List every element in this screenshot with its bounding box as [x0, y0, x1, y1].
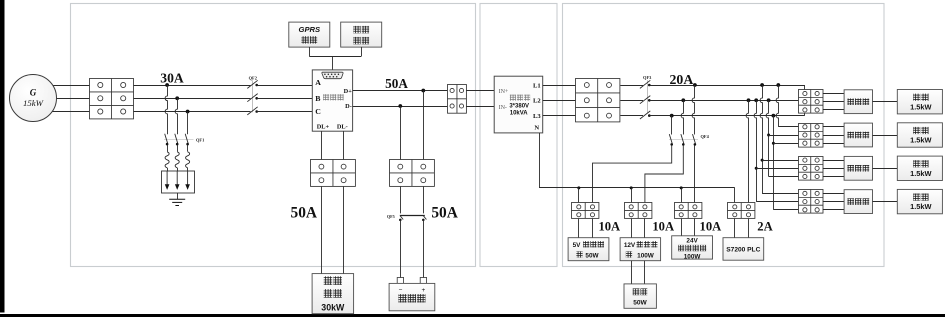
12V regulated supply box 100W: [620, 238, 661, 261]
ground symbol: [169, 199, 185, 205]
terminal block motor branch 3: [799, 157, 824, 181]
node junction phase B arrester tap: [175, 96, 179, 100]
breaker QF2 pole A: [247, 80, 258, 88]
svg-text:3*380V: 3*380V: [509, 103, 529, 109]
wire L3 bend into motor block 1: [804, 114, 806, 116]
node tap branch3 L1: [760, 83, 764, 87]
node branch3 L1 stub junction: [761, 159, 764, 162]
wire block to VFD 2 top: [823, 126, 844, 128]
node tap QF4 L3: [670, 114, 674, 118]
wire VFD to motor 2: [873, 135, 898, 137]
label maodeng: [633, 288, 648, 295]
node QF5 right: [422, 219, 425, 222]
svg-text:−: −: [399, 286, 403, 293]
node tap branch3 L2: [754, 98, 758, 102]
VFD box bianpinqi 2: [844, 123, 872, 147]
svg-text:DL-: DL-: [337, 124, 348, 131]
svg-text:12V: 12V: [624, 242, 636, 249]
wire branch4 lower stub: [773, 209, 798, 211]
svg-text:L2: L2: [533, 98, 541, 105]
wire IN- link: [466, 106, 494, 108]
svg-text:L3: L3: [533, 113, 541, 120]
breaker QF2 pole C: [247, 107, 258, 115]
svg-text:DL+: DL+: [317, 124, 330, 131]
node N tap 5V: [577, 186, 580, 189]
wire arrester drop B: [175, 98, 177, 134]
terminal block TB4 inverter input: [448, 85, 467, 114]
surge arrester coil: [175, 152, 179, 168]
svg-text:30A: 30A: [160, 71, 184, 86]
wire inverter L3 out: [543, 115, 576, 117]
surge arrester coil: [165, 152, 169, 168]
svg-text:10A: 10A: [700, 219, 722, 233]
wire arrester drop C: [187, 112, 189, 135]
svg-text:D-: D-: [345, 103, 352, 110]
svg-text:B: B: [315, 94, 320, 103]
breaker QF1 pole C: [185, 134, 189, 146]
svg-text:QF2: QF2: [249, 75, 257, 80]
svg-text:L1: L1: [533, 82, 541, 89]
svg-text:QF1: QF1: [196, 138, 204, 143]
wire QF1 to arrester coil: [187, 145, 189, 152]
wire arrester drop A: [165, 85, 167, 134]
wire QF4-3 to 24V supply phase: [694, 145, 696, 203]
wire QF2 to controller A: [257, 85, 313, 87]
svg-text:50W: 50W: [585, 252, 599, 259]
wire TB6 5V supply out right: [592, 219, 594, 238]
breaker QF4 pole 3: [693, 134, 697, 146]
svg-text:24V: 24V: [686, 238, 698, 245]
wire block to VFD 3 top: [823, 160, 844, 162]
battery terminal plus: [420, 278, 426, 284]
dump load resistor box 30kW: [312, 274, 354, 314]
label shuju: [353, 26, 369, 33]
terminal block TB6 5V supply: [572, 203, 599, 219]
wire branch3 L2 stub: [756, 168, 798, 170]
wire TB5 to QF3 L2: [620, 100, 643, 102]
breaker QF3 pole L1: [640, 80, 651, 88]
S7200 PLC box: [723, 238, 764, 261]
wire N tap 12V: [631, 188, 633, 203]
svg-text:D+: D+: [344, 88, 353, 95]
label bianpinqi 4: [847, 198, 869, 205]
breaker QF1 pole A: [165, 134, 169, 146]
node N tap 24V: [680, 186, 683, 189]
wire inverter L1 out: [543, 85, 576, 87]
wire L2 bus: [649, 100, 798, 102]
wire block to VFD 1 bottom: [823, 109, 844, 111]
wire TB6 5V supply out left: [578, 219, 580, 238]
svg-text:1.5kW: 1.5kW: [910, 102, 931, 111]
svg-text:S7200 PLC: S7200 PLC: [726, 247, 760, 254]
wire branch2 L2 stub: [769, 135, 799, 137]
wire TB8 24V supply out left: [681, 219, 683, 236]
node tap branch2 L3: [772, 114, 776, 118]
wire TB9 PLC out left: [734, 219, 736, 238]
svg-text:1.5kW: 1.5kW: [910, 136, 931, 145]
anchor light box 50W: [624, 284, 656, 308]
motor box 4 1.5kW: [897, 189, 942, 213]
svg-text:20A: 20A: [670, 72, 694, 87]
svg-text:GPRS: GPRS: [299, 25, 321, 34]
node junction phase A arrester tap: [165, 83, 169, 87]
breaker QF4 pole 1: [669, 134, 673, 146]
node tap branch2 L1: [776, 83, 780, 87]
svg-text:1.5kW: 1.5kW: [910, 169, 931, 178]
label bianpinqi 3: [847, 165, 869, 172]
svg-text:50A: 50A: [385, 76, 408, 91]
wire branch4 L1 stub: [762, 193, 798, 195]
motor box 3 1.5kW: [897, 156, 942, 180]
svg-text:G: G: [30, 88, 37, 98]
breaker QF3 linkage: [647, 80, 649, 113]
label wenyadianyuan: [678, 245, 706, 251]
wire block to VFD 4 bottom: [823, 209, 844, 211]
node QF5 left: [399, 219, 402, 222]
svg-text:100W: 100W: [684, 254, 702, 261]
wire battery tap negative: [400, 106, 402, 160]
wire coil to arrester box: [187, 168, 189, 171]
wire N bus horizontal: [539, 187, 735, 189]
breaker QF4 linkage: [669, 139, 698, 141]
wire QF4-1 to 5V supply phase: [593, 145, 672, 203]
terminal block TB8 24V supply: [675, 203, 702, 219]
breaker QF1 pole B: [175, 134, 179, 146]
frame: generator-controller section: [71, 4, 476, 267]
wire generator phase C: [33, 111, 90, 113]
label dianji 2: [913, 127, 928, 134]
inverter box 3*380V 10kVA: [494, 76, 543, 133]
svg-text:QF4: QF4: [701, 134, 710, 139]
svg-text:15kW: 15kW: [23, 98, 44, 108]
wire comm join horizontal: [309, 56, 361, 58]
wire block to VFD 2 bottom: [823, 143, 844, 145]
label tongxin: [301, 36, 317, 43]
label yuan 50W: [576, 251, 582, 257]
wire battery tap positive: [423, 91, 425, 160]
breaker QF3 pole L2: [640, 96, 651, 104]
wire PLC phase drop: [746, 100, 748, 203]
label kongzhiqi controller: [323, 94, 344, 100]
breaker QF4 pole 2: [681, 134, 685, 146]
frame: inverter section: [480, 4, 557, 267]
svg-text:1.5kW: 1.5kW: [910, 202, 931, 211]
node tap branch2 L2: [767, 98, 771, 102]
terminal block TB7 12V supply: [625, 203, 652, 219]
wire branch3 L1 stub: [762, 160, 798, 162]
wire bus A to QF2: [134, 85, 251, 87]
5V regulated supply box 50W: [568, 238, 609, 261]
wire block to VFD 1 mid: [823, 101, 844, 103]
wire QF2 to controller C: [257, 111, 313, 113]
node junction D- battery tap: [398, 104, 402, 108]
wire N bus turn down to PLC block: [734, 188, 736, 203]
wire VFD to motor 3: [873, 168, 898, 170]
svg-text:QF5: QF5: [387, 214, 395, 219]
wire branch2-4 L3 feeder: [773, 116, 775, 210]
data storage box: [341, 22, 382, 47]
arrester discharge arrow: [185, 171, 190, 190]
svg-text:A: A: [315, 78, 321, 87]
wire 12V to anchor light left: [631, 261, 633, 284]
wire N tap 5V: [578, 188, 580, 203]
GPRS communication box: [289, 22, 330, 47]
svg-text:50A: 50A: [431, 205, 458, 222]
wire D- to inverter terminal: [353, 106, 448, 108]
controller DB9 connector: [322, 72, 343, 79]
wire block to VFD 4 top: [823, 193, 844, 195]
frame: distribution section: [563, 4, 885, 267]
wire TB8 24V supply out right: [694, 219, 696, 236]
wire block to VFD 3 bottom: [823, 176, 844, 178]
wire VFD to motor 4: [873, 201, 898, 203]
wire QF2 to controller B: [257, 98, 313, 100]
terminal block motor branch 1: [799, 90, 824, 114]
wire DL- down: [343, 131, 345, 160]
svg-text:50W: 50W: [633, 300, 647, 307]
svg-text:10kVA: 10kVA: [510, 110, 529, 116]
wire branch3-4 L2 feeder: [754, 100, 756, 201]
svg-text:10A: 10A: [598, 219, 620, 233]
svg-text:C: C: [315, 107, 321, 116]
wire branch2 L1 stub: [778, 126, 798, 128]
wire battery QF5 upper right: [423, 187, 425, 214]
breaker QF2 pole B: [247, 94, 258, 102]
VFD box bianpinqi 1: [844, 90, 872, 114]
terminal block TB2 dump load: [311, 160, 356, 187]
svg-text:+: +: [422, 287, 426, 294]
label nibianqi inverter: [510, 95, 530, 101]
terminal block motor branch 2: [799, 124, 824, 148]
svg-text:IN-: IN-: [499, 105, 507, 111]
label cunchu: [353, 37, 369, 44]
VFD box bianpinqi 3: [844, 156, 872, 180]
wire VFD to motor 1: [873, 101, 898, 103]
breaker QF1 linkage: [164, 139, 194, 141]
svg-text:50A: 50A: [291, 205, 318, 222]
terminal block TB3 battery: [390, 160, 435, 187]
terminal block TB5 AC distribution: [576, 79, 620, 122]
node tap QF4 L2: [681, 98, 685, 102]
wire TB9 PLC out right: [748, 219, 750, 238]
wire D+ to inverter terminal: [353, 90, 448, 92]
label yuan 100W: [626, 251, 632, 257]
wire block to VFD 3 mid: [823, 168, 844, 170]
wire dump load left: [321, 187, 323, 274]
wire block to VFD 2 mid: [823, 135, 844, 137]
VFD box bianpinqi 4: [844, 190, 872, 214]
wire QF4 drop L2: [681, 100, 683, 134]
breaker QF2 linkage: [252, 80, 254, 112]
wire TB7 12V supply out right: [644, 219, 646, 238]
svg-text:2A: 2A: [757, 219, 772, 233]
wire block to VFD 1 top: [823, 93, 844, 95]
label dianzu: [324, 289, 342, 298]
wire generator phase B: [33, 98, 90, 100]
wire coil to arrester box: [177, 168, 179, 171]
controller U1 box: [312, 70, 352, 131]
node N tap 12V: [630, 186, 633, 189]
wire arrester box to ground: [177, 193, 179, 199]
wire bus C to QF2: [134, 111, 251, 113]
label dianji 4: [913, 194, 928, 201]
wire branch2 L1 feeder: [776, 85, 778, 127]
svg-text:QF3: QF3: [643, 75, 652, 80]
wire L1 bus: [649, 85, 804, 87]
node branch2 L2 stub junction: [767, 134, 770, 137]
wire branch4 L2 stub: [756, 201, 798, 203]
arrester discharge arrow: [165, 171, 170, 190]
wire battery QF5 upper left: [400, 187, 402, 214]
svg-text:IN+: IN+: [499, 89, 509, 95]
terminal block motor branch 4: [799, 190, 824, 214]
label xiehe: [324, 276, 342, 285]
wire L3 bus: [649, 115, 804, 117]
node junction phase C arrester tap: [186, 110, 190, 114]
wire QF1 to arrester coil: [177, 145, 179, 152]
node tap PLC phase: [747, 98, 751, 102]
wire dump load right: [343, 187, 345, 274]
wire coil to arrester box: [167, 168, 169, 171]
wire TB7 12V supply out left: [631, 219, 633, 238]
wire branch2-3 L2 feeder: [766, 100, 768, 176]
wire IN+ link: [466, 90, 494, 92]
wire branch2 L3 stub: [773, 143, 798, 145]
arrester discharge arrow: [175, 171, 180, 190]
breaker QF5 blade right: [423, 216, 426, 220]
node junction D+ battery tap: [421, 89, 425, 93]
svg-text:5V: 5V: [573, 242, 582, 249]
svg-text:30kW: 30kW: [321, 302, 345, 312]
wire block to VFD 4 mid: [823, 201, 844, 203]
breaker QF5 linkage bar: [400, 215, 425, 217]
left page border strip: [0, 0, 5, 313]
breaker QF3 pole L3: [640, 111, 651, 119]
label dianji 3: [913, 160, 928, 167]
wire QF1 to arrester coil: [167, 145, 169, 152]
motor box 1 1.5kW: [897, 90, 942, 114]
surge arrester coil: [186, 152, 190, 168]
node branch2 L3 stub junction: [772, 142, 775, 145]
terminal block TB9 PLC: [728, 203, 755, 219]
node tap QF4 L1: [693, 83, 697, 87]
label xudianchi battery: [398, 294, 425, 302]
motor box 2 1.5kW: [897, 123, 942, 147]
wire bus B to QF2: [134, 98, 251, 100]
wire comm to controller DB9: [332, 56, 334, 70]
wire data box down: [361, 47, 363, 56]
wire branch3 lower stub: [769, 176, 799, 178]
wire branch3-4 L1 feeder: [760, 85, 762, 193]
wire QF5 to battery plus: [423, 220, 425, 278]
wire TB5 to QF3 L3: [620, 115, 643, 117]
terminal block TB1 generator output: [90, 79, 134, 119]
svg-text:10A: 10A: [652, 219, 674, 233]
bottom page border strip: [0, 314, 945, 317]
battery terminal minus: [397, 278, 403, 284]
label 5V wenyadian: [573, 242, 582, 249]
label dianji 1: [913, 94, 928, 101]
label 12V wenyadian: [624, 242, 636, 249]
wire 12V to anchor light right: [644, 261, 646, 284]
24V regulated supply box 100W: [672, 236, 713, 259]
generator G 15kW: [10, 75, 57, 122]
wire QF4-2 to 12V supply phase: [645, 145, 683, 203]
label bianpinqi 2: [847, 132, 869, 139]
wire DL+ down: [321, 131, 323, 160]
svg-text:100W: 100W: [637, 252, 655, 259]
wire TB5 to QF3 L1: [620, 85, 643, 87]
wire QF4 drop L3: [671, 116, 673, 135]
wire L1 bend into motor block 1: [804, 85, 806, 90]
wire QF4 drop L1: [692, 85, 694, 135]
label bianpinqi 1: [847, 98, 869, 105]
node branch3 L2 stub junction: [755, 167, 758, 170]
surge arrester box: [162, 171, 195, 193]
svg-text:N: N: [534, 124, 539, 131]
wire N drop from inverter: [539, 133, 541, 188]
battery box: [389, 283, 435, 310]
wire generator phase A: [33, 85, 90, 87]
wire N tap 24V: [681, 188, 683, 203]
wire QF5 to battery minus: [400, 220, 402, 278]
wire inverter L2 out: [543, 100, 576, 102]
breaker QF5 blade left: [400, 216, 403, 220]
wire GPRS box down: [309, 47, 311, 56]
